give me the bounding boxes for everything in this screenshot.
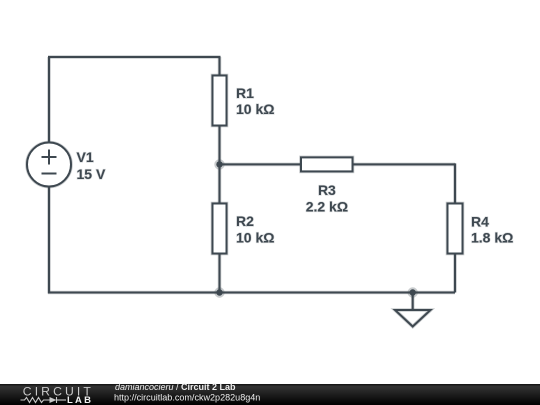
resistor R1	[213, 76, 227, 126]
footer bar	[0, 384, 540, 405]
svg-text:damiancocieru / Circuit 2 Lab: damiancocieru / Circuit 2 Lab	[115, 382, 236, 392]
soft halo for component labels	[77, 85, 514, 246]
wire bottom horizontal net	[48, 292, 455, 294]
resistor R2	[213, 204, 227, 254]
node bottom-left junction dot	[216, 289, 222, 295]
node A junction dot	[216, 161, 222, 167]
wire left vertical lower (V1 bottom)	[48, 187, 50, 294]
svg-text:V1: V1	[77, 149, 94, 165]
svg-text:R2: R2	[236, 213, 254, 229]
svg-text:10 kΩ: 10 kΩ	[236, 101, 274, 117]
svg-text:R3: R3	[318, 182, 336, 198]
wire left vertical upper (V1 top)	[48, 57, 50, 143]
svg-text:R1: R1	[236, 85, 254, 101]
soft edge halo underlay for wires and symbols	[27, 57, 463, 327]
wire node A to R3 left	[220, 163, 302, 165]
svg-text:LAB: LAB	[67, 395, 93, 405]
svg-text:15 V: 15 V	[77, 166, 106, 182]
wire top horizontal from V1 to R1	[48, 56, 221, 58]
CircuitLab logo resistor-diode squiggle	[21, 397, 67, 403]
wire R2 top stub	[219, 164, 221, 203]
wire R4 bottom stub	[454, 254, 456, 293]
ground	[395, 293, 431, 327]
svg-text:R4: R4	[471, 213, 489, 229]
svg-text:2.2 kΩ: 2.2 kΩ	[306, 198, 348, 214]
wire R2 bottom stub	[219, 254, 221, 293]
wire R3 right to right corner	[353, 163, 456, 165]
wire R1 bottom stub to node A	[219, 126, 221, 165]
svg-text:1.8 kΩ: 1.8 kΩ	[471, 230, 513, 246]
svg-text:10 kΩ: 10 kΩ	[236, 229, 274, 245]
wire right vertical to R4 top	[454, 163, 456, 203]
resistor R3	[301, 157, 353, 171]
wire R1 top stub	[219, 57, 221, 76]
node ground junction dot	[410, 289, 416, 295]
svg-text:http://circuitlab.com/ckw2p282: http://circuitlab.com/ckw2p282u8g4n	[114, 392, 260, 402]
resistor R4	[448, 204, 463, 254]
voltage source V1	[27, 143, 71, 187]
